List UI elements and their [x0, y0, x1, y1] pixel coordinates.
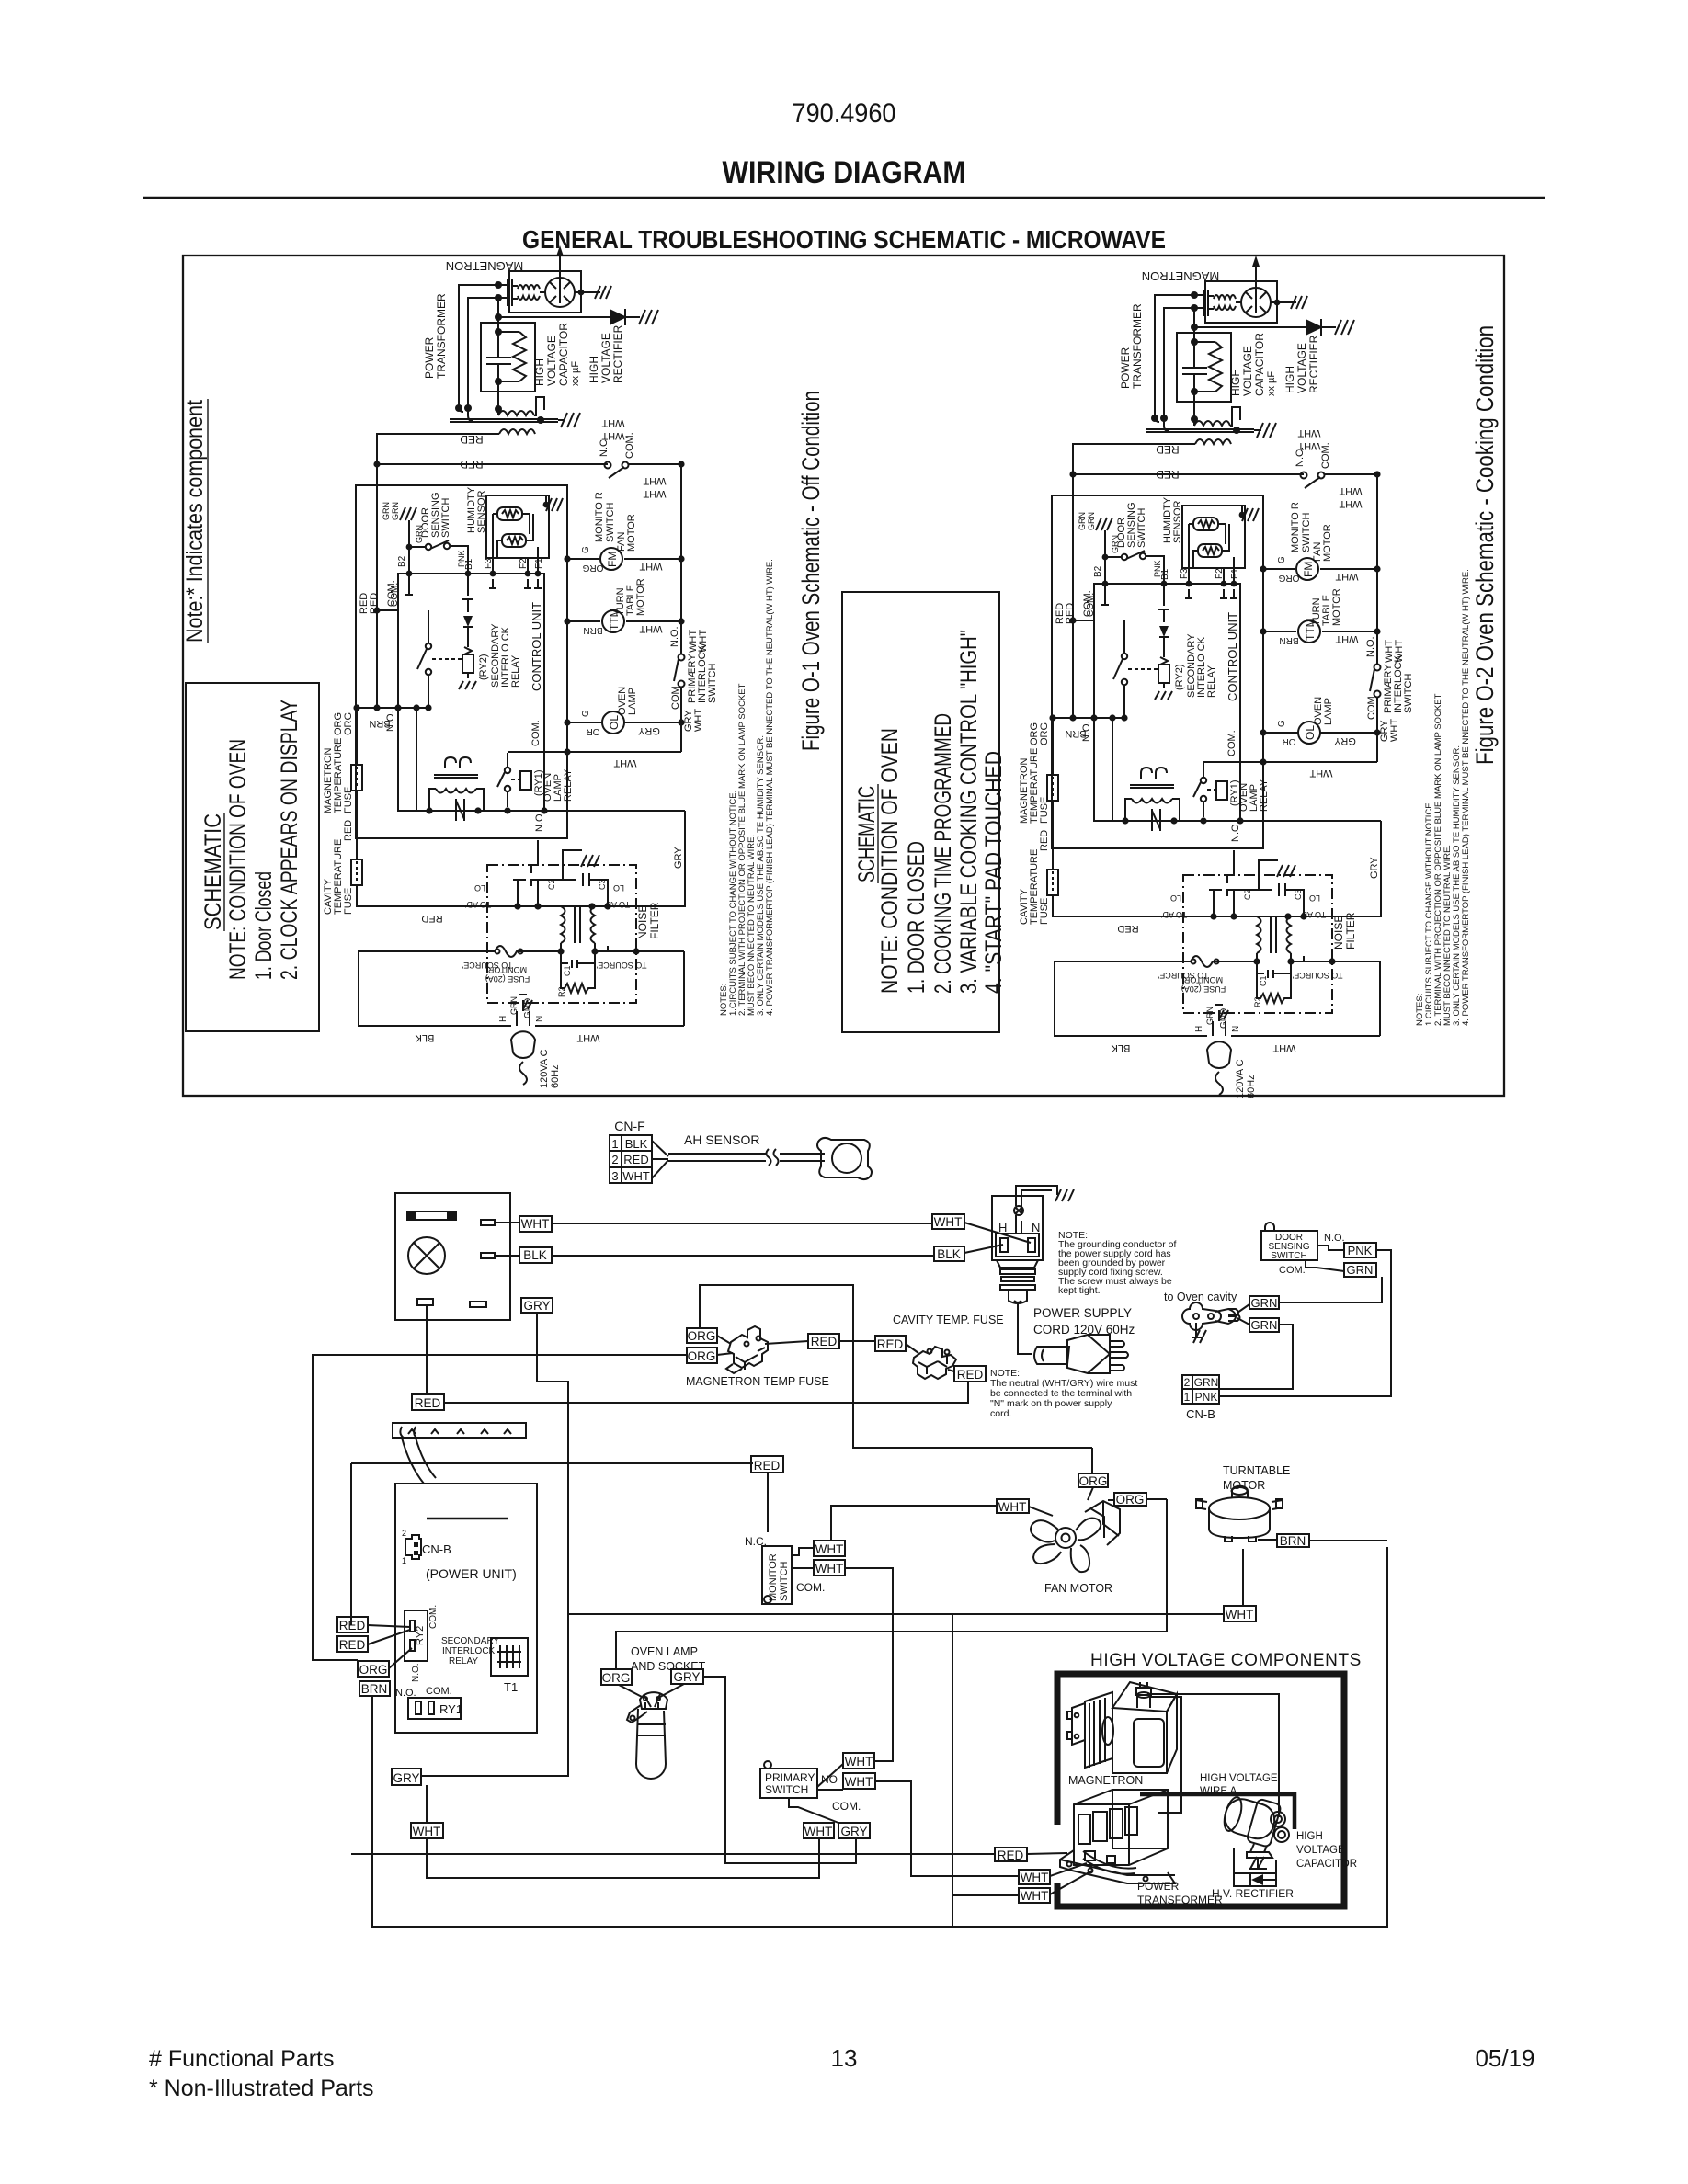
header rule — [143, 197, 1545, 199]
svg-text:WHT: WHT — [601, 417, 624, 428]
magnetron ground — [575, 291, 600, 293]
CN-F connector table — [610, 1135, 652, 1183]
magnetron tube — [508, 271, 581, 313]
SCHEMATIC note box (fig O-1) — [186, 683, 319, 1031]
svg-text:N.C.: N.C. — [599, 437, 610, 457]
svg-text:WHT: WHT — [613, 757, 636, 768]
GRY label box — [521, 1298, 553, 1313]
svg-text:BRN: BRN — [583, 625, 602, 635]
svg-text:OR: OR — [587, 726, 600, 736]
svg-text:TRANSFORMER: TRANSFORMER — [1137, 1894, 1223, 1906]
svg-text:13: 13 — [831, 2044, 858, 2072]
svg-text:Figure O-2 Oven Schematic - Co: Figure O-2 Oven Schematic - Cooking Cond… — [1471, 325, 1499, 765]
WHT boxes at transformer — [1019, 1870, 1050, 1884]
WHT boxes at monitor switch — [814, 1541, 845, 1556]
svg-text:CAPACITOR: CAPACITOR — [557, 323, 570, 386]
control unit outer rect — [356, 485, 567, 838]
svg-text:C3: C3 — [598, 879, 607, 890]
right bus — [680, 464, 682, 752]
svg-text:RED: RED — [415, 1396, 441, 1410]
magnetron wires — [1147, 1694, 1279, 1817]
HV capacitor — [481, 323, 535, 392]
svg-text:F1: F1 — [534, 558, 544, 569]
svg-text:xx µF: xx µF — [570, 361, 581, 386]
svg-text:SCHEMATIC: SCHEMATIC — [854, 786, 880, 882]
svg-text:SWITCH: SWITCH — [605, 503, 616, 542]
svg-text:GND: GND — [523, 998, 533, 1018]
magnetron pictorial — [1067, 1682, 1177, 1773]
svg-text:RED: RED — [369, 593, 380, 614]
noise filter box — [487, 865, 636, 1003]
BRN box at turntable — [1277, 1534, 1309, 1547]
WHT wire to power cord — [495, 1223, 932, 1223]
svg-text:(RY2): (RY2) — [478, 654, 489, 680]
WHT wire to transformer — [875, 1781, 1019, 1876]
svg-text:MONITO R: MONITO R — [594, 492, 605, 542]
svg-text:Figure O-1 Oven Schematic - Of: Figure O-1 Oven Schematic - Off Conditio… — [797, 391, 825, 751]
svg-text:NOTE: CONDITION OF OVEN: NOTE: CONDITION OF OVEN — [877, 728, 903, 994]
svg-text:TURNTABLE: TURNTABLE — [1223, 1464, 1290, 1477]
svg-text:05/19: 05/19 — [1475, 2044, 1534, 2072]
svg-text:N: N — [535, 1016, 545, 1022]
fan motor pictorial — [1031, 1501, 1120, 1572]
svg-text:MOTOR: MOTOR — [626, 514, 637, 552]
svg-text:ORG: ORG — [359, 1663, 388, 1677]
svg-text:POWER SUPPLY: POWER SUPPLY — [1033, 1306, 1132, 1320]
magnetron temperature fuse — [356, 708, 358, 765]
svg-text:C1: C1 — [563, 965, 572, 976]
svg-text:FILTER: FILTER — [648, 902, 661, 939]
relay RY1 — [408, 1698, 461, 1719]
svg-text:CAVITY TEMP. FUSE: CAVITY TEMP. FUSE — [893, 1314, 1004, 1326]
NOTE grounding text — [1058, 1230, 1177, 1296]
svg-text:TO AD': TO AD' — [603, 900, 630, 909]
keyboard strip — [393, 1423, 526, 1438]
CN-B table — [1182, 1375, 1219, 1404]
svg-text:ORG: ORG — [1079, 1474, 1108, 1488]
WHT label box — [519, 1216, 552, 1232]
svg-text:2: 2 — [1184, 1376, 1191, 1389]
SCHEMATIC note box (fig O-2) — [842, 592, 999, 1032]
RED box chain to cavity fuse — [765, 1341, 808, 1344]
svg-text:GRY: GRY — [523, 1299, 550, 1313]
svg-text:COM.: COM. — [428, 1605, 439, 1629]
oven lamp ORG GRY boxes — [601, 1669, 632, 1685]
svg-text:RED: RED — [998, 1848, 1024, 1862]
RED RED ORG BRN label boxes — [337, 1617, 368, 1632]
WHT return line — [567, 751, 681, 753]
CN-B connector icon — [405, 1535, 421, 1559]
svg-text:VOLTAGE: VOLTAGE — [599, 333, 612, 383]
svg-text:2: 2 — [402, 1529, 406, 1538]
svg-text:RELAY: RELAY — [510, 654, 521, 688]
magnetron temp fuse ORG boxes — [687, 1328, 717, 1343]
svg-text:GRY: GRY — [673, 847, 684, 869]
svg-text:2: 2 — [611, 1153, 618, 1166]
svg-text:T1: T1 — [504, 1680, 518, 1694]
svg-text:GRN: GRN — [1251, 1318, 1278, 1332]
svg-text:B2: B2 — [397, 555, 407, 567]
svg-text:VOLTAGE: VOLTAGE — [545, 336, 558, 386]
secondary interlock relay RY2 — [462, 574, 473, 612]
svg-text:RED: RED — [339, 1638, 366, 1652]
ORG wire up to fan line — [616, 1499, 1167, 1669]
svg-text:RELAY: RELAY — [563, 768, 574, 802]
choke coils — [561, 906, 565, 943]
svg-text:HIGH: HIGH — [533, 358, 546, 386]
top RED bus wires — [377, 434, 608, 708]
svg-text:60Hz: 60Hz — [550, 1064, 561, 1088]
power transformer pictorial — [1060, 1790, 1175, 1883]
svg-text:ORG: ORG — [1116, 1493, 1145, 1507]
svg-text:C2: C2 — [547, 879, 556, 890]
svg-text:GRN: GRN — [391, 502, 400, 520]
svg-text:BRN: BRN — [361, 1682, 388, 1696]
svg-text:1. Door Closed: 1. Door Closed — [251, 871, 277, 980]
svg-text:# Functional Parts: # Functional Parts — [149, 2046, 335, 2072]
GRN wires — [1219, 1277, 1382, 1389]
svg-text:1: 1 — [611, 1137, 618, 1151]
HIGH VOLTAGE WIRE A thick wire — [1140, 1794, 1295, 1829]
RED label box left — [412, 1394, 444, 1410]
svg-text:HIGH VOLTAGE: HIGH VOLTAGE — [1200, 1773, 1278, 1784]
svg-text:1. DOOR CLOSED: 1. DOOR CLOSED — [904, 841, 930, 994]
door sensing switch — [1261, 1231, 1317, 1260]
long RED run — [351, 1853, 995, 1855]
svg-text:RED: RED — [877, 1337, 904, 1351]
svg-text:WHT: WHT — [639, 623, 662, 634]
svg-text:BLK: BLK — [625, 1137, 648, 1151]
svg-text:CONTROL UNIT: CONTROL UNIT — [530, 602, 543, 691]
cord to plug — [1018, 1303, 1032, 1354]
svg-text:N.C.: N.C. — [745, 1535, 767, 1548]
svg-text:GRY: GRY — [393, 1771, 419, 1785]
svg-text:NOTE: CONDITION OF OVEN: NOTE: CONDITION OF OVEN — [225, 739, 251, 980]
svg-text:BLK: BLK — [937, 1247, 961, 1261]
svg-text:OVEN LAMP: OVEN LAMP — [631, 1645, 698, 1658]
oven lamp bulb — [636, 1709, 666, 1779]
WHT boxes right of primary switch — [843, 1753, 874, 1769]
svg-text:120VA C: 120VA C — [539, 1049, 550, 1088]
svg-text:LO: LO — [474, 883, 485, 893]
svg-text:OL: OL — [608, 715, 621, 730]
plug pictorial — [1034, 1347, 1069, 1364]
HV rectifier diode — [498, 301, 640, 325]
control panel unit — [395, 1193, 510, 1320]
AH sensor cable — [652, 1141, 668, 1178]
RED wire to monitor switch — [351, 1463, 753, 1625]
svg-text:FUSE: FUSE — [343, 787, 354, 813]
svg-text:WHT: WHT — [643, 488, 666, 499]
svg-text:1: 1 — [402, 1556, 406, 1565]
low voltage transformer — [445, 757, 471, 768]
svg-text:COM.: COM. — [386, 580, 397, 607]
oven lamp socket pictorial — [640, 1692, 667, 1709]
keyboard ribbon cable — [402, 1438, 436, 1484]
AH sensor head — [817, 1138, 872, 1179]
svg-text:WHT: WHT — [576, 1032, 599, 1043]
magnetron temp fuse pictorial — [728, 1326, 768, 1368]
svg-text:MONITOR: MONITOR — [768, 1553, 779, 1601]
power unit box — [395, 1484, 537, 1733]
WHT wire to fan motor — [831, 1506, 997, 1541]
control unit inner rect — [398, 574, 544, 811]
svg-text:H.V. RECTIFIER: H.V. RECTIFIER — [1212, 1887, 1294, 1900]
grounding conductor — [1016, 1186, 1057, 1215]
svg-text:INTERLOCK: INTERLOCK — [442, 1646, 496, 1656]
WHT box under turntable — [1224, 1606, 1256, 1621]
svg-text:cord.: cord. — [990, 1408, 1011, 1419]
svg-text:AND SOCKET: AND SOCKET — [631, 1660, 706, 1673]
HV rectifier bracket and ground — [1234, 1848, 1258, 1873]
svg-text:COM.: COM. — [796, 1581, 825, 1594]
WHT label box at cord — [932, 1214, 964, 1229]
svg-text:RED: RED — [754, 1459, 781, 1473]
svg-text:ORG: ORG — [582, 563, 603, 573]
svg-text:COM.: COM. — [832, 1800, 861, 1813]
svg-text:(POWER UNIT): (POWER UNIT) — [426, 1566, 517, 1581]
strain relief — [997, 1260, 1038, 1268]
HV capacitor pictorial — [1220, 1791, 1289, 1858]
svg-text:B1: B1 — [464, 558, 474, 570]
svg-text:1: 1 — [1184, 1391, 1191, 1404]
svg-text:F2: F2 — [519, 558, 529, 569]
svg-text:Note:* Indicates component: Note:* Indicates component — [182, 400, 208, 643]
svg-text:4. "START" PAD TOUCHED: 4. "START" PAD TOUCHED — [981, 751, 1007, 994]
svg-text:GRN: GRN — [1347, 1263, 1374, 1277]
humidity sensor — [486, 495, 549, 558]
svg-text:MAGNETRON: MAGNETRON — [446, 259, 524, 273]
svg-text:WHT: WHT — [815, 1542, 844, 1556]
COM rail left stub — [377, 609, 398, 611]
svg-text:LAMP: LAMP — [627, 688, 638, 715]
svg-text:SWITCH: SWITCH — [765, 1783, 808, 1796]
noise filter internals — [534, 903, 541, 909]
GRY wire to primary switch COM — [703, 1677, 856, 1863]
svg-text:WHT: WHT — [693, 709, 704, 732]
oven lamp OL — [602, 711, 624, 734]
svg-text:AH SENSOR: AH SENSOR — [684, 1132, 759, 1147]
svg-text:N.O.: N.O. — [385, 711, 396, 732]
leads to RY2 — [368, 1625, 412, 1668]
GRY label box under power unit — [392, 1769, 421, 1785]
svg-text:ORG: ORG — [688, 1329, 716, 1343]
RED box at transformer — [995, 1848, 1027, 1861]
RED wire down to long run — [444, 1382, 968, 1403]
WHT run to turntable — [568, 1613, 1224, 1615]
svg-text:790.4960: 790.4960 — [793, 98, 896, 129]
svg-text:RED: RED — [343, 820, 354, 841]
svg-text:CN-B: CN-B — [1186, 1407, 1215, 1421]
svg-text:RED: RED — [623, 1153, 648, 1166]
svg-text:CORD 120V 60Hz: CORD 120V 60Hz — [1033, 1323, 1135, 1337]
svg-text:3: 3 — [611, 1169, 618, 1183]
svg-text:WHT: WHT — [1021, 1871, 1049, 1884]
svg-text:CN-F: CN-F — [614, 1119, 644, 1133]
svg-text:SWITCH: SWITCH — [440, 498, 451, 538]
svg-text:G: G — [581, 710, 591, 717]
svg-text:H: H — [498, 1016, 508, 1022]
PNK wire up to door switch — [1219, 1250, 1391, 1396]
svg-text:WHT: WHT — [845, 1775, 873, 1789]
monitor fuse — [487, 946, 522, 957]
svg-text:POWER: POWER — [423, 336, 436, 379]
svg-text:SCHEMATIC: SCHEMATIC — [200, 813, 226, 930]
svg-text:PRIMARY: PRIMARY — [765, 1771, 815, 1784]
door sensing switch — [409, 520, 426, 574]
svg-text:WHT: WHT — [998, 1500, 1027, 1514]
svg-text:FUSE: FUSE — [343, 888, 354, 915]
svg-text:3. VARIABLE COOKING CONTROL "H: 3. VARIABLE COOKING CONTROL "HIGH" — [956, 630, 982, 994]
primary switch — [760, 1769, 817, 1798]
svg-text:TO SOURCE': TO SOURCE' — [462, 961, 512, 970]
svg-text:WHT: WHT — [622, 1169, 650, 1183]
RED box right of cavity fuse — [954, 1366, 986, 1382]
svg-text:TRANSFORMER: TRANSFORMER — [435, 293, 448, 379]
svg-text:kept tight.: kept tight. — [1058, 1285, 1101, 1296]
svg-text:to Oven cavity: to Oven cavity — [1164, 1291, 1237, 1303]
Figure O-1 schematic (rotated drawing) — [323, 245, 775, 1088]
svg-text:RECTIFIER: RECTIFIER — [611, 324, 624, 383]
svg-text:BLK: BLK — [523, 1248, 547, 1262]
svg-text:FUSE (20A): FUSE (20A) — [485, 974, 530, 984]
svg-text:WHT: WHT — [639, 561, 662, 572]
relay rail — [416, 810, 685, 812]
fuse leads — [717, 1336, 733, 1355]
WHT label box lower left — [411, 1823, 443, 1838]
svg-text:TO SOURCE': TO SOURCE' — [596, 961, 646, 970]
svg-text:ORG: ORG — [602, 1671, 631, 1685]
svg-text:2. COOKING TIME PROGRAMMED: 2. COOKING TIME PROGRAMMED — [930, 713, 956, 994]
svg-text:COM.: COM. — [670, 683, 681, 710]
BLK label box — [519, 1247, 552, 1263]
svg-text:PNK: PNK — [1195, 1391, 1218, 1404]
GRN label box at door switch — [1344, 1263, 1376, 1277]
svg-text:R2: R2 — [557, 986, 566, 997]
ORG boxes at fan — [1078, 1473, 1108, 1487]
oven lamp relay RY1 — [505, 768, 510, 773]
svg-text:N.O.: N.O. — [1324, 1233, 1345, 1244]
svg-text:SWITCH: SWITCH — [779, 1562, 790, 1601]
svg-text:ORG: ORG — [688, 1349, 716, 1363]
svg-text:H: H — [998, 1221, 1007, 1234]
cavity temp fuse pictorial — [913, 1347, 956, 1379]
svg-text:CN-B: CN-B — [422, 1542, 451, 1556]
svg-text:COM.: COM. — [624, 432, 635, 459]
svg-text:SENSOR: SENSOR — [476, 490, 487, 533]
relay RY2 — [405, 1610, 428, 1661]
svg-text:GRN: GRN — [1251, 1296, 1278, 1310]
svg-text:LO: LO — [613, 883, 624, 893]
svg-text:WHT: WHT — [521, 1217, 550, 1231]
svg-text:FAN MOTOR: FAN MOTOR — [1044, 1582, 1112, 1595]
magnetron filament leads — [459, 285, 508, 421]
source side wires — [359, 951, 684, 1026]
GRN label boxes — [1249, 1296, 1279, 1309]
BLK wire to power cord — [495, 1255, 934, 1257]
transformer T1 — [491, 1638, 528, 1676]
WHT box at fan — [997, 1499, 1029, 1513]
svg-text:SWITCH: SWITCH — [1271, 1251, 1306, 1261]
ORG BRN rail — [357, 707, 428, 709]
turntable motor TTM — [602, 610, 624, 632]
C1 and R2 — [561, 951, 595, 968]
svg-text:COM.: COM. — [1279, 1265, 1306, 1276]
svg-text:RED: RED — [460, 433, 484, 446]
svg-text:RELAY: RELAY — [449, 1656, 478, 1666]
svg-text:HIGH VOLTAGE COMPONENTS: HIGH VOLTAGE COMPONENTS — [1090, 1651, 1362, 1670]
svg-text:N.O.: N.O. — [411, 1663, 421, 1682]
svg-text:N.O.: N.O. — [669, 626, 680, 647]
svg-text:BLK: BLK — [415, 1032, 434, 1043]
svg-text:RED: RED — [339, 1619, 366, 1632]
primary interlock switch — [679, 654, 685, 661]
neon N symbol — [456, 799, 464, 821]
svg-text:RED: RED — [421, 913, 442, 924]
NOTE neutral text — [990, 1368, 1137, 1419]
svg-text:N.O.: N.O. — [534, 811, 545, 832]
svg-text:WIRE A: WIRE A — [1200, 1786, 1237, 1797]
svg-text:WHT: WHT — [1226, 1608, 1254, 1621]
svg-text:N: N — [1032, 1221, 1040, 1234]
turntable motor pictorial — [1196, 1486, 1283, 1541]
svg-text:COM.: COM. — [426, 1686, 452, 1697]
GRY wire from panel to power unit — [421, 1313, 568, 1776]
svg-text:NOISE: NOISE — [636, 905, 649, 939]
svg-text:MAGNETRON TEMP FUSE: MAGNETRON TEMP FUSE — [686, 1375, 829, 1388]
svg-text:VOLTAGE: VOLTAGE — [1296, 1845, 1345, 1856]
svg-text:FM: FM — [606, 552, 619, 567]
svg-text:WHT: WHT — [643, 475, 666, 486]
power supply cord terminal block — [992, 1196, 1043, 1260]
ORG wire loop over top — [700, 1285, 1092, 1448]
svg-text:MOTOR: MOTOR — [1223, 1479, 1265, 1492]
svg-text:RY2: RY2 — [415, 1626, 426, 1645]
fan motor FM — [600, 548, 622, 570]
svg-text:GRN: GRN — [1194, 1376, 1219, 1389]
power transformer — [450, 419, 558, 422]
svg-text:WHT: WHT — [413, 1825, 441, 1838]
BLK label box at cord — [934, 1246, 964, 1261]
Lower pictorial wiring diagram — [313, 1119, 1177, 1776]
Figure O-2 schematic (copy of O-1, cooking condition) — [1019, 256, 1471, 1098]
svg-text:WIRING DIAGRAM: WIRING DIAGRAM — [723, 155, 966, 190]
PNK label box — [1344, 1243, 1376, 1257]
WHT GRY boxes at primary switch — [804, 1823, 834, 1838]
magnetron antenna arrow — [559, 253, 561, 303]
svg-text:WHT: WHT — [804, 1825, 833, 1838]
svg-text:SWITCH: SWITCH — [707, 664, 718, 703]
svg-text:* Non-Illustrated Parts: * Non-Illustrated Parts — [149, 2076, 374, 2101]
svg-text:ORG: ORG — [343, 712, 354, 735]
svg-text:RED: RED — [957, 1368, 984, 1382]
BRN wire bottom run — [372, 1547, 1387, 1927]
svg-text:BRN: BRN — [1280, 1534, 1306, 1548]
AC plug — [517, 1011, 530, 1026]
svg-text:PNK: PNK — [1348, 1244, 1373, 1257]
svg-text:WHT: WHT — [934, 1215, 963, 1229]
svg-text:GRN: GRN — [509, 996, 519, 1015]
svg-text:GRN: GRN — [382, 502, 391, 520]
svg-text:N.O.: N.O. — [395, 1688, 416, 1699]
svg-text:GRY: GRY — [638, 725, 660, 736]
monitor switch — [762, 1546, 792, 1604]
ORG wire from left bus — [313, 1355, 687, 1660]
svg-text:MOTOR: MOTOR — [635, 578, 646, 616]
svg-text:TO AD': TO AD' — [464, 900, 491, 909]
svg-text:HIGH: HIGH — [1296, 1831, 1323, 1842]
svg-text:GRY: GRY — [840, 1825, 867, 1838]
